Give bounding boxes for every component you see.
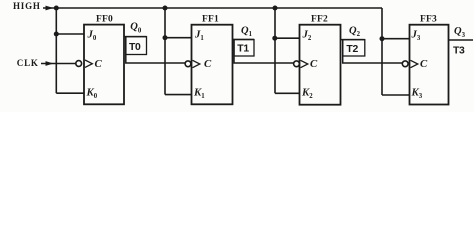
wire K2 input <box>275 92 300 94</box>
svg-text:J0: J0 <box>87 28 97 42</box>
wire Q1 output <box>233 39 255 41</box>
svg-text:C: C <box>310 58 318 70</box>
wire Q0 to FF1 clock <box>126 37 185 63</box>
svg-text:J1: J1 <box>194 29 204 43</box>
svg-text:J3: J3 <box>411 29 421 43</box>
T1 test point box <box>234 40 254 57</box>
clock bubble FF0 <box>76 61 82 67</box>
clock wedge FF0 <box>85 60 92 67</box>
svg-text:FF3: FF3 <box>420 14 437 24</box>
svg-text:T3: T3 <box>453 45 465 56</box>
svg-text:CLK: CLK <box>17 58 39 68</box>
node junction dot rail/FF0 <box>54 6 59 11</box>
svg-text:T0: T0 <box>129 42 141 53</box>
svg-text:T1: T1 <box>237 44 249 55</box>
junction dot J3 <box>380 36 385 41</box>
node junction dot rail/FF1 <box>163 6 168 11</box>
wire K1 input <box>165 94 192 96</box>
wire J2 input <box>275 37 300 39</box>
HIGH rail arrowhead <box>46 6 54 11</box>
CLK arrowhead <box>46 61 54 66</box>
svg-text:J2: J2 <box>302 29 312 43</box>
flip-flop FF3 box <box>410 25 449 105</box>
svg-text:Q3: Q3 <box>454 26 466 39</box>
svg-text:FF2: FF2 <box>311 14 328 24</box>
flip-flop FF2 box <box>300 25 341 105</box>
wire HIGH drop to FF2 J/K <box>274 8 276 93</box>
svg-text:Q2: Q2 <box>349 25 361 38</box>
wire K0 input <box>56 92 84 94</box>
wire J0 input <box>56 33 84 35</box>
wire Q1 to FF2 clock <box>234 40 294 64</box>
wire Q2 output <box>341 39 365 41</box>
junction dot J1 <box>163 35 168 40</box>
HIGH rail wire <box>43 7 382 9</box>
svg-text:K2: K2 <box>301 86 313 100</box>
T2 test point box <box>343 40 365 56</box>
svg-text:HIGH: HIGH <box>13 1 41 11</box>
wire HIGH drop to FF0 J/K <box>55 8 57 93</box>
wire Q0 output <box>124 36 147 38</box>
wire K3 input <box>382 94 410 96</box>
clock bubble FF3 <box>402 61 408 67</box>
wire J1 input <box>165 37 192 39</box>
svg-text:C: C <box>420 58 428 70</box>
wire HIGH drop to FF3 J/K <box>381 8 383 95</box>
svg-text:K3: K3 <box>411 86 423 100</box>
svg-text:Q1: Q1 <box>241 25 253 38</box>
T0 test point box <box>126 37 147 55</box>
svg-text:C: C <box>95 58 103 70</box>
svg-text:T2: T2 <box>346 44 358 55</box>
clock wedge FF2 <box>301 60 308 67</box>
wire CLK input <box>41 63 76 65</box>
svg-text:C: C <box>204 58 212 70</box>
svg-text:FF0: FF0 <box>96 14 113 24</box>
node junction dot rail/FF2 <box>273 6 278 11</box>
flip-flop FF0 box <box>84 25 124 105</box>
junction dot J2 <box>272 36 277 41</box>
wire Q2 to FF3 clock <box>343 40 403 63</box>
clock bubble FF2 <box>294 61 300 67</box>
wire HIGH drop to FF1 J/K <box>164 8 166 95</box>
svg-text:K1: K1 <box>193 86 205 100</box>
svg-text:K0: K0 <box>86 86 98 100</box>
wire Q3 output <box>449 39 474 41</box>
clock wedge FF3 <box>411 60 418 67</box>
junction dot J0 <box>54 32 59 37</box>
flip-flop FF1 box <box>192 25 233 105</box>
wire J3 input <box>382 38 410 40</box>
clock bubble FF1 <box>185 61 191 67</box>
clock wedge FF1 <box>193 60 200 67</box>
svg-text:FF1: FF1 <box>202 14 219 24</box>
svg-text:Q0: Q0 <box>130 22 142 35</box>
